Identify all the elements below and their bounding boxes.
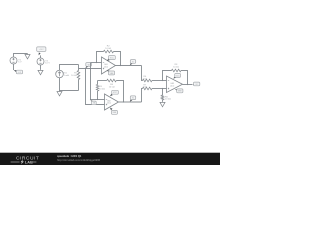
- net flag V2 node: [37, 47, 46, 56]
- value label OA2 text: [107, 99, 112, 104]
- wire R4 top left: [98, 80, 107, 82]
- svg-text:10 kΩ: 10 kΩ: [99, 88, 105, 90]
- op-amp OA1 pins: [103, 63, 104, 70]
- net flag node VO1: [130, 60, 136, 66]
- svg-text:10 kΩ: 10 kΩ: [173, 66, 179, 68]
- svg-text:10 V: 10 V: [45, 63, 50, 65]
- junction node A tap: [85, 68, 86, 69]
- value label R8: [173, 64, 179, 68]
- svg-text:VCC: VCC: [113, 92, 118, 94]
- resistor R1: [77, 71, 80, 80]
- wire OA2 - input: [91, 99, 105, 101]
- wire R2 right leg: [114, 52, 121, 66]
- value label V2: [45, 60, 50, 64]
- wire R1 stubs: [78, 65, 80, 91]
- wire vertical A / OA2 + input: [86, 69, 105, 105]
- svg-text:LAB: LAB: [25, 161, 33, 165]
- value label R6: [143, 76, 148, 80]
- value label R7: [143, 84, 148, 88]
- svg-text:VB: VB: [93, 103, 95, 105]
- wire V1 top: [14, 54, 28, 58]
- ground: [25, 54, 30, 59]
- junction OA2 inverting node: [90, 99, 91, 100]
- value label V1: [18, 59, 22, 63]
- net flag OA1 VCC: [107, 56, 116, 61]
- net flag OA3 VCC: [173, 74, 180, 79]
- footer watermark bar: [0, 153, 220, 165]
- svg-text:http://circuitlab.com/c42d26qg: http://circuitlab.com/c42d26qge9995: [57, 158, 101, 162]
- net flag node VO2: [130, 96, 136, 102]
- value label R4: [109, 84, 115, 88]
- net flag node B: [91, 100, 97, 105]
- current source IS1: [56, 70, 64, 78]
- svg-text:speedude : HW1 Q1: speedude : HW1 Q1: [57, 154, 82, 158]
- wire R7 to OA3: [152, 88, 167, 90]
- wire op-amp1 - input: [91, 62, 102, 64]
- junction OA3 +/R5: [162, 88, 163, 89]
- value label IS1: [64, 73, 70, 77]
- net flag OA2 VCC: [110, 90, 118, 96]
- resistor R6: [143, 79, 152, 82]
- value label R2: [105, 46, 111, 50]
- junction OA1 output/R2: [120, 65, 121, 66]
- op-amp OA2: [105, 94, 119, 110]
- wire op-amp1 + input: [79, 68, 102, 70]
- wire R3 stubs: [97, 81, 99, 100]
- wire riser top: [142, 66, 143, 81]
- wire R5 bottom stub: [162, 100, 164, 101]
- svg-text:V1: V1: [132, 61, 134, 63]
- wire R5 top stub: [162, 89, 164, 96]
- wire V2 top: [40, 55, 42, 58]
- svg-text:1 kΩ: 1 kΩ: [143, 79, 148, 81]
- wire V2 bottom: [40, 65, 42, 69]
- resistor R8: [172, 69, 181, 72]
- value label R5: [165, 96, 171, 100]
- wire V1 bottom: [13, 64, 15, 70]
- svg-text:ideal: ideal: [104, 66, 109, 68]
- value label OA3 text: [170, 82, 175, 87]
- value label OA1 text: [104, 63, 109, 68]
- wire OA3 output: [183, 84, 193, 86]
- svg-text:VCC: VCC: [110, 57, 115, 59]
- value label R3: [99, 86, 105, 90]
- voltage source V2: [37, 58, 44, 65]
- wire vertical bus: [90, 63, 92, 100]
- svg-text:VCC: VCC: [176, 75, 181, 77]
- svg-text:10 kΩ: 10 kΩ: [105, 48, 111, 50]
- net flag node VOUT: [192, 82, 200, 86]
- footer logo lightning bolt: [21, 160, 24, 165]
- svg-text:5 V: 5 V: [18, 62, 22, 64]
- svg-text:10 kΩ: 10 kΩ: [109, 87, 115, 89]
- value label R1: [71, 73, 78, 77]
- resistor R7: [143, 87, 152, 90]
- ground: [38, 69, 43, 74]
- wire OA1 output: [116, 65, 142, 67]
- ground: [57, 91, 62, 96]
- wire riser bottom: [142, 89, 143, 103]
- op-amp OA3 pins: [168, 81, 169, 90]
- wire OA2 output: [119, 101, 142, 103]
- wire IS1 top rail: [60, 65, 79, 71]
- junction OA3 -/R8: [162, 80, 163, 81]
- wire R6 to OA3: [152, 80, 167, 82]
- resistor R2: [104, 50, 114, 53]
- wire R8 right leg: [181, 71, 188, 85]
- net flag OA1 VEE: [107, 70, 115, 75]
- op-amp OA1: [102, 57, 116, 74]
- junction OA2 output/R4: [123, 101, 124, 102]
- ground: [160, 101, 165, 106]
- wire IS1 bottom rail: [60, 78, 79, 91]
- junction OA1 inverting node: [96, 62, 97, 63]
- svg-text:1 mA: 1 mA: [64, 74, 70, 77]
- junction bus/+ wire: [90, 68, 91, 69]
- wire R2 left leg: [97, 52, 104, 63]
- svg-text:1 kΩ: 1 kΩ: [143, 87, 148, 89]
- footer logo left dashes: [11, 161, 20, 164]
- net flag OA3 VEE: [175, 89, 183, 93]
- junction R3/OA2 -: [97, 99, 98, 100]
- net flag node A: [86, 63, 92, 69]
- net flag V1 node: [14, 70, 23, 74]
- wire R8 left leg: [163, 71, 172, 81]
- net flag OA2 VEE: [110, 108, 118, 115]
- svg-text:V2: V2: [132, 98, 134, 100]
- footer logo right dashes: [33, 161, 36, 164]
- op-amp OA3: [167, 76, 183, 93]
- svg-text:10 kΩ: 10 kΩ: [71, 75, 77, 77]
- svg-text:ideal: ideal: [170, 85, 175, 87]
- voltage source V1: [10, 57, 17, 64]
- resistor R5: [161, 95, 163, 100]
- resistor R3: [96, 85, 98, 91]
- resistor R4: [107, 79, 116, 82]
- svg-text:ideal: ideal: [107, 103, 112, 105]
- wire R4 right leg: [116, 81, 123, 103]
- junction OA3 output/R8: [187, 84, 188, 85]
- svg-text:10 kΩ: 10 kΩ: [165, 99, 171, 101]
- op-amp OA2 pins: [106, 100, 107, 106]
